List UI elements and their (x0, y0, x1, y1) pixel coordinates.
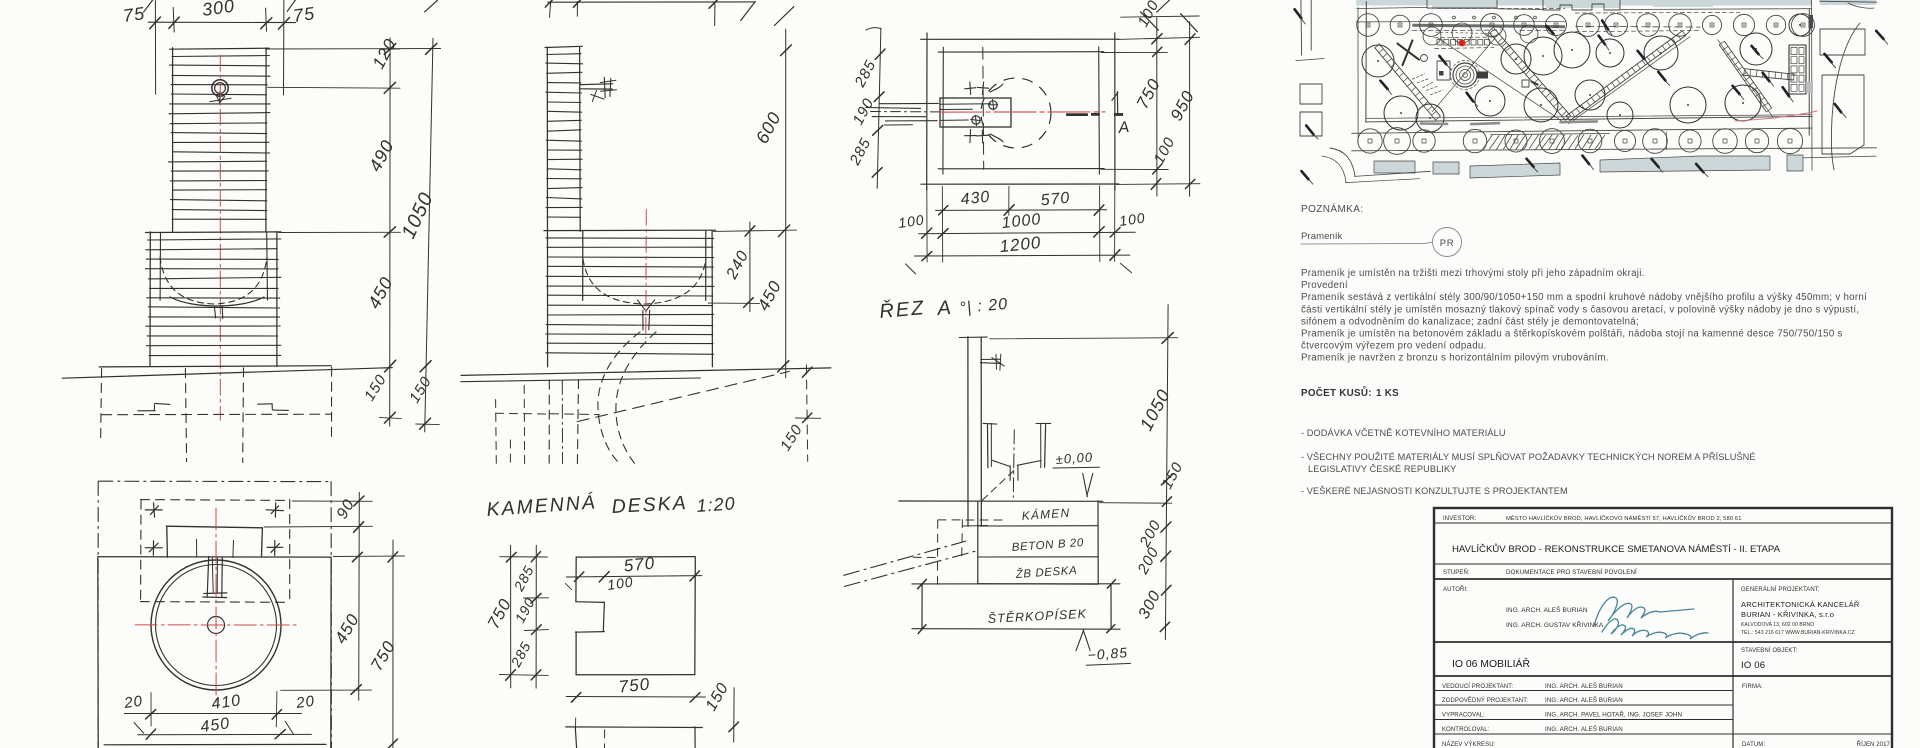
svg-text:±0,00: ±0,00 (1055, 449, 1093, 467)
dim 90/450 plan right (358, 492, 361, 700)
zigzag promenade band A (1375, 48, 1436, 120)
scattered lamp ticks (1602, 21, 1608, 30)
title block row lines (1434, 522, 1892, 524)
svg-text:ŘEZ: ŘEZ (878, 296, 926, 323)
svg-text:ŽB DESKA: ŽB DESKA (1014, 564, 1077, 581)
dashed centreline vertical plan (982, 47, 985, 169)
centre lines red plan (135, 624, 297, 626)
stele plan rectangle (166, 526, 262, 528)
title block outer frame (1434, 508, 1892, 748)
svg-text:−0,85: −0,85 (1087, 644, 1128, 663)
svg-text:- VEŠKERÉ NEJASNOSTI KONZULTUJ: - VEŠKERÉ NEJASNOSTI KONZULTUJTE S PROJE… (1301, 486, 1568, 496)
svg-text:VYPRACOVAL:: VYPRACOVAL: (1442, 713, 1485, 719)
promenade band E horizontal (1744, 75, 1794, 80)
svg-text:KAMENNÁ: KAMENNÁ (486, 490, 598, 521)
svg-text:IO 06 MOBILIÁŘ: IO 06 MOBILIÁŘ (1452, 657, 1530, 670)
section cut line A heavy (1066, 113, 1088, 116)
svg-text:1000: 1000 (1001, 211, 1042, 232)
dim 570/100 slab (566, 576, 702, 577)
dim line 75/300/75 top (148, 21, 295, 23)
level -0.85 mark (1076, 630, 1084, 650)
svg-text:90: 90 (334, 496, 359, 522)
red centre line plan 3 (940, 111, 1105, 113)
svg-text:100: 100 (1135, 0, 1163, 30)
basin side hatched (711, 231, 713, 367)
foundation layer boxes (977, 501, 979, 584)
svg-text:VEDOUCÍ PROJEKTANT:: VEDOUCÍ PROJEKTANT: (1442, 683, 1513, 690)
svg-text:ŘÍJEN 2017: ŘÍJEN 2017 (1857, 740, 1891, 748)
title block column divider (1732, 579, 1734, 748)
dim chain 1050/150/200/200/300 section right (1165, 305, 1168, 640)
svg-text:490: 490 (365, 136, 398, 175)
svg-text:BURIAN - KŘIVINKA, s.r.o: BURIAN - KŘIVINKA, s.r.o (1741, 610, 1834, 619)
svg-text:A: A (1117, 119, 1131, 137)
svg-text:Provedení: Provedení (1301, 280, 1348, 291)
svg-text:ING. ARCH. ALEŠ BURIAN: ING. ARCH. ALEŠ BURIAN (1545, 697, 1623, 704)
svg-text:450: 450 (331, 610, 363, 647)
svg-text:150: 150 (1159, 459, 1187, 492)
site plan of Smetanovo namesti (1295, 0, 1888, 184)
section spout (981, 358, 1000, 360)
nadoba dashed circle plan (981, 78, 1051, 148)
dim 430/570 below plan (936, 209, 1107, 212)
slab notch (576, 601, 604, 604)
svg-text:DATUM:: DATUM: (1742, 742, 1765, 748)
anchor plate dashed square (141, 499, 291, 502)
svg-text:100: 100 (1118, 209, 1146, 229)
pale building strips top (1356, 0, 1812, 6)
facade base line with door dots (1356, 20, 1565, 23)
svg-text:- VŠECHNY POUŽITÉ MATERIÁLY MU: - VŠECHNY POUŽITÉ MATERIÁLY MUSÍ SPLŇOVA… (1301, 452, 1756, 462)
outer rectangle 1200x950 (921, 38, 1119, 40)
svg-text:120: 120 (369, 35, 401, 72)
svg-text:570: 570 (623, 553, 656, 575)
dim 150 below ground drawing 2 (806, 365, 807, 461)
stele centre line red (219, 55, 221, 420)
top row of trees (1357, 14, 1380, 37)
inner rectangle 1000x750 (938, 51, 1103, 53)
svg-text:450: 450 (754, 277, 786, 314)
svg-text:GENERÁLNÍ PROJEKTANT:: GENERÁLNÍ PROJEKTANT: (1741, 586, 1820, 593)
svg-text:750: 750 (618, 674, 651, 696)
svg-text:20: 20 (294, 693, 316, 713)
centre line red drawing 2 (645, 209, 648, 338)
old foundation dashed left (938, 519, 1005, 521)
svg-text:75: 75 (122, 3, 147, 26)
svg-text:AUTOŘI:: AUTOŘI: (1443, 585, 1468, 593)
gray paving segments bottom edge (1420, 122, 1448, 125)
buildings right of square (1820, 29, 1865, 55)
slab bottom edge plan (104, 743, 326, 745)
svg-text:ING. ARCH. PAVEL HOTAŘ, ING. J: ING. ARCH. PAVEL HOTAŘ, ING. JOSEF JOHN (1545, 711, 1682, 719)
svg-text:300: 300 (1136, 588, 1165, 622)
ground line (62, 368, 392, 379)
svg-text:150: 150 (361, 371, 390, 404)
svg-text:150: 150 (406, 373, 435, 406)
extension line top right of plan (1121, 16, 1200, 17)
stele plan rect drawing 3 (940, 98, 1011, 127)
kiosk building right with cells (1789, 45, 1806, 94)
svg-text:NÁZEV VÝKRESU:: NÁZEV VÝKRESU: (1442, 741, 1496, 748)
buildings left of square (1300, 84, 1322, 104)
parking diagonal hatch (1483, 135, 1493, 149)
svg-text:POČET KUSŮ:: POČET KUSŮ: (1301, 387, 1372, 399)
dim 750 plan right (392, 540, 394, 748)
svg-text:MĚSTO HAVLÍČKŮV BROD, HAVLÍČKO: MĚSTO HAVLÍČKŮV BROD, HAVLÍČKOVO NÁMĚSTÍ… (1506, 514, 1742, 522)
stele column side hatched (546, 47, 548, 367)
svg-text:Prameník sestává z vertikální: Prameník sestává z vertikální stély 300/… (1301, 292, 1867, 303)
svg-text:FIRMA:: FIRMA: (1742, 684, 1763, 690)
svg-text:Prameník: Prameník (1301, 231, 1343, 242)
sloping drain dashed to right (577, 371, 789, 421)
stairs dashed marks (1412, 74, 1424, 79)
svg-text:150: 150 (703, 680, 733, 714)
svg-text:410: 410 (210, 692, 242, 713)
svg-text:ING. ARCH. ALEŠ BURIAN: ING. ARCH. ALEŠ BURIAN (1506, 605, 1588, 614)
svg-text:BETON B 20: BETON B 20 (1011, 537, 1084, 554)
svg-text:300: 300 (201, 0, 237, 20)
old foundation dashed verticals left (495, 400, 498, 464)
top dim line drawing 2 (548, 1, 756, 3)
dim 750 slab left (510, 545, 512, 688)
svg-text:STAVEBNÍ OBJEKT:: STAVEBNÍ OBJEKT: (1741, 647, 1798, 654)
svg-text:IO 06: IO 06 (1741, 660, 1765, 671)
svg-text:STUPEŇ:: STUPEŇ: (1443, 569, 1470, 576)
svg-text:- DODÁVKA VČETNĚ KOTEVNÍHO MAT: - DODÁVKA VČETNĚ KOTEVNÍHO MATERIÁLU (1301, 428, 1506, 438)
svg-text:KALVODOVA 13, 602 00 BRNO: KALVODOVA 13, 602 00 BRNO (1741, 622, 1814, 628)
svg-text:150: 150 (777, 421, 806, 454)
red utility curve (1735, 111, 1817, 121)
kiosk rect near fountain (1437, 61, 1450, 80)
svg-text:TEL.: 543 216 617 WWW.BURIAN: TEL.: 543 216 617 WWW.BURIAN-KRIVINKA.CZ (1741, 630, 1855, 636)
svg-text:°| : 20: °| : 20 (959, 296, 1009, 317)
svg-text:100: 100 (1151, 134, 1179, 167)
dim 950 (1189, 22, 1191, 197)
bolts in stele plan (989, 101, 997, 109)
svg-text:PR: PR (1440, 238, 1454, 249)
path edge thin lines (1437, 38, 1563, 123)
svg-text:750: 750 (367, 637, 399, 674)
svg-text:570: 570 (1040, 190, 1071, 210)
svg-text:200: 200 (1134, 544, 1163, 578)
foundation outline dash-dot (99, 480, 332, 482)
large trees middle of square (1362, 45, 1394, 77)
svg-text:části vertikální stély je umís: části vertikální stély je umístěn mosazn… (1301, 304, 1859, 315)
zigzag promenade band D (1719, 45, 1766, 112)
svg-text:Prameník je umístěn na tržišti: Prameník je umístěn na tržišti mezi trho… (1301, 268, 1645, 279)
zigzag promenade band C (1570, 36, 1686, 121)
ground line drawing 2 (461, 368, 831, 376)
stone slab plan square with notch (576, 556, 695, 559)
stone slab top edge (98, 556, 331, 558)
svg-text:DOKUMENTACE PRO STAVEBNÍ POVOL: DOKUMENTACE PRO STAVEBNÍ POVOLENÍ (1506, 569, 1637, 576)
curved street right (1831, 23, 1860, 170)
svg-text:A: A (936, 297, 953, 320)
section basin bottom funnel (992, 460, 1010, 466)
dim 100/750/100 right of plan (1156, 18, 1158, 196)
section basin walls (987, 425, 989, 468)
svg-text:DESKA: DESKA (611, 492, 688, 518)
dim 100/1000/100 (919, 232, 1136, 234)
svg-text:285: 285 (851, 57, 880, 91)
dim 750 slab bottom (566, 696, 705, 699)
foundation below ground dashed (101, 369, 102, 441)
svg-text:KÁMEN: KÁMEN (1021, 505, 1071, 523)
svg-text:1 KS: 1 KS (1376, 388, 1399, 399)
svg-text:1050: 1050 (398, 189, 438, 242)
footing step marks (138, 410, 155, 412)
svg-text:285: 285 (846, 135, 875, 169)
svg-text:ING. ARCH. GUSTAV KŘIVINKA: ING. ARCH. GUSTAV KŘIVINKA (1506, 620, 1604, 629)
basin circle plan (151, 560, 281, 690)
zigzag promenade band B (1490, 33, 1566, 120)
bolt cross ticks above and below (965, 88, 976, 89)
utility dash-dot diagonals (844, 541, 966, 575)
svg-text:ING. ARCH. ALEŠ BURIAN: ING. ARCH. ALEŠ BURIAN (1545, 683, 1623, 690)
crossed paths mark X (1397, 44, 1419, 60)
stall dotted guides (1436, 32, 1492, 33)
round basin (nadoba) hatched (149, 232, 151, 366)
svg-text:240: 240 (723, 248, 752, 283)
svg-text:POZNÁMKA:: POZNÁMKA: (1301, 202, 1364, 215)
svg-text:KONTROLOVAL:: KONTROLOVAL: (1442, 727, 1490, 733)
svg-text:100: 100 (897, 211, 925, 231)
dim 20/410/20 bottom (124, 713, 301, 715)
sterkopisek box (921, 584, 923, 629)
svg-text:950: 950 (1167, 87, 1199, 124)
fountain concentric circles (1453, 63, 1477, 87)
drain pipe dashed below basin (598, 332, 640, 462)
small feature square mid square (1522, 80, 1529, 87)
svg-text:285: 285 (510, 563, 537, 595)
gray wall band (1412, 25, 1565, 27)
svg-text:Prameník je navržen z bronzu s: Prameník je navržen z bronzu s horizontá… (1301, 353, 1609, 364)
svg-text:ŠTĚRKOPÍSEK: ŠTĚRKOPÍSEK (987, 606, 1087, 626)
dim 450 bottom (138, 733, 312, 735)
svg-text:20: 20 (122, 693, 144, 713)
svg-text:450: 450 (199, 715, 231, 736)
supply pipe hatch left of stele (879, 102, 938, 104)
svg-text:600: 600 (752, 108, 785, 147)
svg-text:HAVLÍČKŮV BROD - REKONSTRUKCE: HAVLÍČKŮV BROD - REKONSTRUKCE SMETANOVA … (1452, 543, 1781, 555)
svg-text:100: 100 (606, 573, 634, 593)
push button (mosazny spinac) (212, 80, 228, 96)
svg-text:450: 450 (364, 273, 397, 312)
anchor bolts (145, 509, 162, 511)
water spout (581, 83, 613, 86)
dim 285/190/285 slab left (535, 545, 537, 688)
stone slab side view bottom (566, 726, 703, 729)
svg-text:ARCHITEKTONICKÁ KANCELÁŘ: ARCHITEKTONICKÁ KANCELÁŘ (1741, 600, 1860, 609)
dim 1200 (914, 254, 1129, 257)
dim 285/190/285 top right (877, 28, 881, 188)
basin bowl dashed side (583, 259, 706, 304)
foundation top line section (899, 500, 1103, 502)
pramenik location red dot (1459, 40, 1466, 47)
svg-text:ING. ARCH. ALEŠ BURIAN: ING. ARCH. ALEŠ BURIAN (1545, 726, 1623, 733)
svg-text:1:20: 1:20 (696, 493, 736, 516)
dim 1050 overall + 150 (425, 38, 433, 432)
basin inner bowl dashed (160, 257, 267, 304)
svg-text:750: 750 (1133, 75, 1165, 112)
svg-text:430: 430 (960, 189, 991, 209)
bottom row of trees (1358, 129, 1382, 153)
second tree row partial (1423, 27, 1441, 45)
svg-text:čtvercovým výřezem pro vedení: čtvercovým výřezem pro vedení odpadu. (1301, 341, 1487, 352)
svg-text:ZODPOVĚDNÝ PROJEKTANT:: ZODPOVĚDNÝ PROJEKTANT: (1442, 696, 1528, 704)
svg-text:LEGISLATIVY ČESKÉ REPUBLIKY: LEGISLATIVY ČESKÉ REPUBLIKY (1308, 464, 1456, 474)
dim 240 (749, 222, 751, 312)
dim chain 120/490/450/150 right of drawing 1 (389, 38, 391, 426)
pale buildings bottom (1374, 161, 1415, 173)
small circle feature (1421, 55, 1428, 62)
svg-text:sifónem a odvodněním do kanali: sifónem a odvodněním do kanalizace; zadn… (1301, 316, 1639, 327)
street curb curves bottom left (1330, 148, 1355, 176)
svg-text:75: 75 (292, 3, 317, 26)
bottom road lines (1352, 128, 1812, 133)
svg-text:INVESTOR:: INVESTOR: (1443, 516, 1476, 522)
building outline with notches top (1543, 0, 1620, 10)
svg-text:Prameník je umístěn na betonov: Prameník je umístěn na betonovém základu… (1301, 329, 1843, 340)
signature (1594, 597, 1694, 626)
svg-text:1050: 1050 (1136, 386, 1174, 434)
section drawing: stele verticals (967, 337, 969, 527)
market stalls row with dashed guides (1434, 36, 1494, 39)
drain pipe plan detail (207, 556, 209, 596)
dim 600/450 right of drawing 2 (785, 29, 787, 378)
svg-text:1200: 1200 (999, 233, 1043, 256)
square boundary lines (1365, 2, 1367, 122)
stele column hatched (172, 48, 174, 232)
